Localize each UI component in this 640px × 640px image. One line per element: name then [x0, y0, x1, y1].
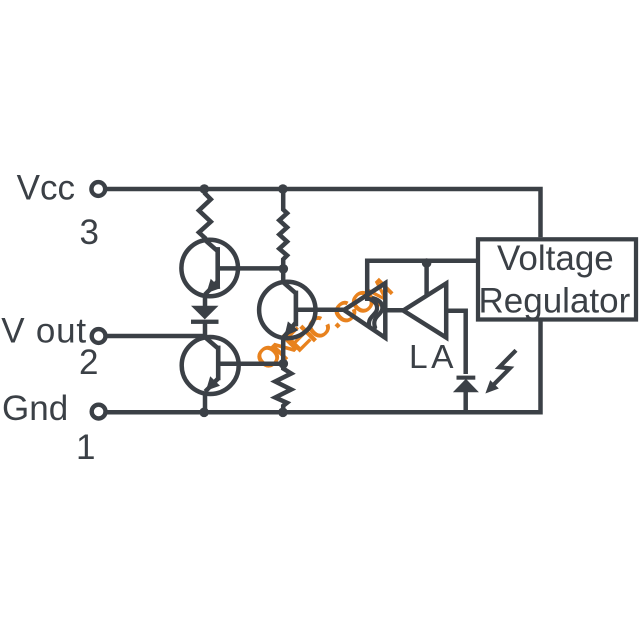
svg-text:Regulator: Regulator — [479, 281, 631, 320]
svg-text:3: 3 — [80, 213, 99, 252]
svg-text:V out: V out — [1, 312, 87, 351]
svg-text:1: 1 — [76, 428, 95, 467]
svg-text:Gnd: Gnd — [2, 389, 68, 428]
svg-text:Voltage: Voltage — [497, 239, 614, 278]
svg-text:Vcc: Vcc — [17, 169, 75, 208]
svg-text:LA: LA — [409, 339, 457, 376]
svg-text:2: 2 — [79, 343, 98, 382]
